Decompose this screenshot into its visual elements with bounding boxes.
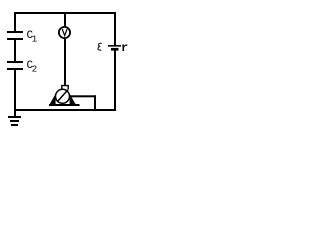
svg-text:1: 1 <box>32 34 37 44</box>
svg-text:2: 2 <box>32 64 37 74</box>
svg-text:r: r <box>121 41 128 55</box>
